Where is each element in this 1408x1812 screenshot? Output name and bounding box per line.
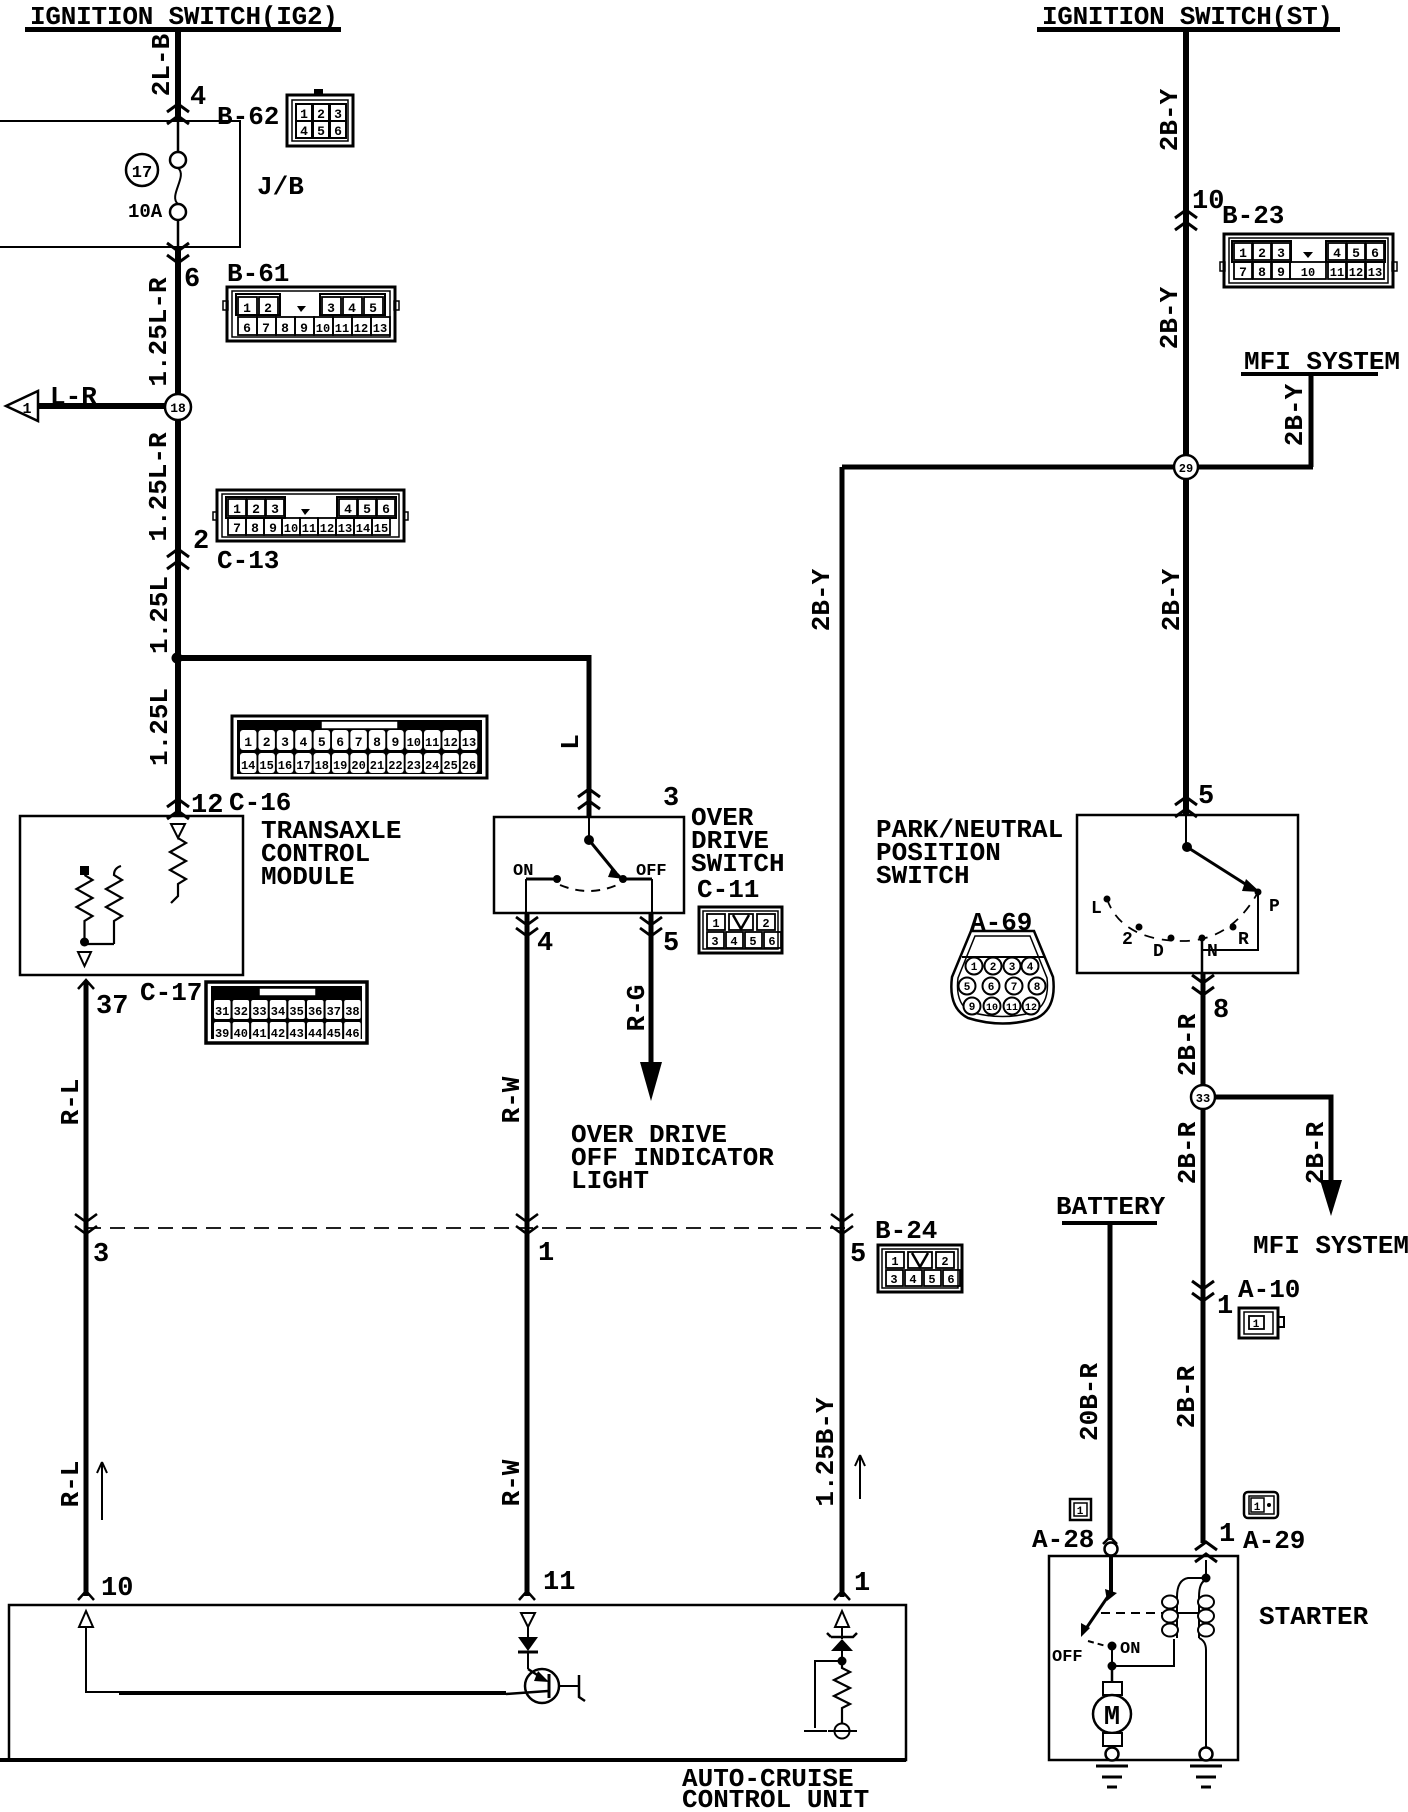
wire 20B-R from battery to starter A-28 (1075, 1225, 1117, 1544)
svg-text:1.25B-Y: 1.25B-Y (811, 1397, 841, 1507)
svg-text:C-16: C-16 (229, 788, 291, 818)
starter motor M (1093, 1666, 1131, 1751)
svg-text:10: 10 (407, 736, 421, 750)
svg-text:13: 13 (338, 522, 352, 536)
svg-text:11: 11 (543, 1568, 575, 1598)
svg-text:11: 11 (425, 736, 439, 750)
input arrow at auto-cruise pin 1 (835, 1611, 849, 1627)
connector B-61 icon (13 pins) (223, 287, 399, 341)
input arrow at auto-cruise pin 11 (521, 1613, 535, 1627)
svg-text:4: 4 (190, 83, 206, 113)
svg-text:2B-R: 2B-R (1172, 1365, 1202, 1428)
svg-text:2: 2 (1258, 246, 1266, 261)
svg-text:A-10: A-10 (1238, 1275, 1300, 1305)
svg-text:9: 9 (300, 321, 308, 336)
OVER DRIVE SWITCH box (494, 803, 785, 913)
svg-text:1: 1 (1239, 246, 1247, 261)
junction dot at branch to overdrive switch (172, 653, 183, 664)
pin 12 of connector C-16 with pass-through arrows (167, 791, 223, 821)
svg-text:38: 38 (345, 1005, 359, 1019)
triangle pointer 1 (L-R destination) (6, 391, 38, 421)
svg-text:1.25L: 1.25L (145, 576, 175, 654)
pin 1 of auto-cruise control unit (834, 1569, 870, 1600)
svg-text:10: 10 (101, 1574, 133, 1604)
svg-text:2: 2 (941, 1255, 948, 1269)
svg-text:2B-Y: 2B-Y (1280, 383, 1310, 446)
svg-text:3: 3 (271, 502, 279, 517)
svg-text:8: 8 (373, 735, 381, 750)
svg-text:5: 5 (964, 982, 971, 994)
svg-text:3: 3 (327, 301, 335, 316)
svg-text:21: 21 (370, 759, 384, 773)
over drive switch contacts and lever (513, 817, 667, 913)
ground symbol (right) (1190, 1766, 1222, 1787)
svg-text:45: 45 (327, 1027, 341, 1041)
svg-text:R-W: R-W (497, 1459, 527, 1506)
svg-text:C-17: C-17 (140, 978, 202, 1008)
pin 3 crossing at dashed boundary (75, 1214, 109, 1270)
svg-text:1: 1 (243, 301, 251, 316)
svg-text:26: 26 (462, 759, 476, 773)
wire 1.25L-R from J/B pin 6 to splice 18 (144, 247, 178, 396)
svg-text:4: 4 (300, 124, 308, 139)
svg-text:L: L (1091, 899, 1102, 919)
wire 2B-Y from MFI SYSTEM down to splice 29 (1280, 376, 1311, 467)
svg-text:12: 12 (320, 522, 334, 536)
svg-text:1: 1 (22, 401, 31, 418)
wire 1.25B-Y from boundary to auto-cruise pin 1 (811, 1228, 842, 1597)
svg-text:33: 33 (252, 1005, 266, 1019)
svg-text:2: 2 (264, 301, 272, 316)
junction dot and branch inside auto-cruise unit (804, 1657, 847, 1732)
arrow to over drive off indicator light (640, 1062, 662, 1101)
svg-text:7: 7 (1239, 265, 1247, 280)
svg-text:2: 2 (252, 502, 260, 517)
svg-text:11: 11 (1006, 1003, 1018, 1014)
svg-text:1.25L: 1.25L (145, 688, 175, 766)
connector C-13 icon (15 pins) (213, 490, 408, 541)
svg-text:5: 5 (1352, 246, 1360, 261)
svg-text:36: 36 (308, 1005, 322, 1019)
svg-text:B-62: B-62 (217, 102, 279, 132)
pin 1 crossing at dashed boundary (516, 1214, 554, 1269)
wire from splice 29 to middle 2B-Y branch (842, 465, 1313, 470)
pin 1 of connector A-29 with pass-through arrows (1195, 1520, 1235, 1562)
svg-text:4: 4 (909, 1273, 916, 1287)
svg-text:11: 11 (302, 522, 316, 536)
svg-text:25: 25 (443, 759, 457, 773)
contact circle at resistor bottom (828, 1724, 857, 1739)
svg-text:15: 15 (259, 759, 273, 773)
svg-text:3: 3 (1277, 246, 1285, 261)
svg-text:12: 12 (1349, 266, 1363, 280)
svg-text:37: 37 (96, 992, 128, 1022)
svg-text:12: 12 (354, 322, 368, 336)
wire 2B-Y (middle branch down to boundary) (807, 467, 842, 1228)
transistor Q1 inside auto-cruise unit (506, 1669, 585, 1703)
svg-text:9: 9 (269, 521, 277, 536)
svg-text:MODULE: MODULE (261, 862, 355, 892)
pin 4 of over drive switch (516, 917, 553, 959)
svg-text:8: 8 (1258, 265, 1266, 280)
svg-text:5: 5 (318, 735, 326, 750)
svg-text:8: 8 (1034, 982, 1041, 994)
svg-text:R-L: R-L (56, 1461, 86, 1508)
svg-text:14: 14 (356, 522, 370, 536)
pin 5 of over drive switch (640, 917, 679, 959)
pin 4 of connector B-62 with pass-through arrows (167, 83, 206, 124)
resistor inside auto-cruise unit (834, 1664, 850, 1723)
connector B-61 row 2 cells 6-13 (238, 317, 390, 336)
pin 1 of connector A-10 with pass-through arrows (1192, 1281, 1233, 1322)
svg-text:33: 33 (1196, 1092, 1210, 1106)
svg-text:7: 7 (1011, 982, 1018, 994)
svg-text:41: 41 (252, 1027, 266, 1041)
splice node 29 (1174, 455, 1198, 479)
AUTO-CRUISE CONTROL UNIT box (0, 1605, 906, 1812)
svg-text:32: 32 (234, 1005, 248, 1019)
svg-text:2B-R: 2B-R (1301, 1121, 1331, 1184)
svg-text:7: 7 (262, 321, 270, 336)
svg-text:9: 9 (969, 1002, 976, 1014)
svg-text:37: 37 (327, 1005, 341, 1019)
wire 2B-Y from IGNITION SWITCH(ST) to B-23 (1155, 31, 1186, 815)
TRANSAXLE CONTROL MODULE box (20, 816, 401, 975)
pin 6 of connector B-61 with pass-through arrows (167, 243, 200, 295)
svg-text:10: 10 (316, 322, 330, 336)
wire L-R to triangle pointer 1 (38, 382, 166, 412)
svg-text:46: 46 (345, 1027, 359, 1041)
svg-text:OFF: OFF (1052, 1648, 1083, 1667)
svg-text:13: 13 (373, 322, 387, 336)
svg-text:2B-Y: 2B-Y (807, 568, 837, 631)
connector A-28 icon (1070, 1499, 1091, 1520)
svg-text:44: 44 (308, 1027, 322, 1041)
svg-text:3: 3 (663, 784, 679, 814)
svg-text:3: 3 (334, 107, 342, 122)
wire R-G from over drive switch pin 5 (622, 913, 652, 1064)
svg-text:P: P (1269, 897, 1280, 917)
svg-text:12: 12 (443, 736, 457, 750)
svg-text:5: 5 (850, 1240, 866, 1270)
wire 2B-R from park/neutral switch to splice 33 (1173, 973, 1203, 1543)
svg-text:6: 6 (336, 735, 344, 750)
svg-text:8: 8 (251, 521, 259, 536)
svg-text:6: 6 (382, 502, 390, 517)
resistor (right, inside TCM) with triangle terminal (170, 824, 186, 903)
svg-text:2B-Y: 2B-Y (1157, 568, 1187, 631)
svg-text:5: 5 (663, 929, 679, 959)
svg-text:R-L: R-L (56, 1079, 86, 1126)
fuse 17 10A inside J/B (126, 121, 186, 247)
svg-text:2: 2 (1122, 930, 1133, 950)
svg-text:ON: ON (1120, 1640, 1140, 1659)
svg-text:A-28: A-28 (1032, 1525, 1094, 1555)
svg-text:2: 2 (762, 917, 769, 931)
svg-text:39: 39 (215, 1027, 229, 1041)
svg-text:1.25L-R: 1.25L-R (144, 277, 174, 387)
svg-text:9: 9 (391, 735, 399, 750)
pin 3 of over drive switch connector C-11 (578, 784, 679, 814)
svg-text:13: 13 (1368, 266, 1382, 280)
ground terminal circles on starter (1106, 1748, 1119, 1761)
svg-text:2B-Y: 2B-Y (1155, 286, 1185, 349)
node BATTERY title (1056, 1192, 1166, 1225)
svg-text:B-23: B-23 (1222, 201, 1284, 231)
svg-text:4: 4 (1333, 246, 1341, 261)
svg-text:16: 16 (278, 759, 292, 773)
svg-text:19: 19 (333, 759, 347, 773)
svg-text:24: 24 (425, 759, 439, 773)
connector C-17 icon (pins 31-46, dark body) (206, 982, 367, 1043)
PARK/NEUTRAL POSITION SWITCH box (876, 815, 1298, 973)
node IGNITION SWITCH (ST) title (1037, 2, 1340, 32)
splice node 33 (1191, 1085, 1215, 1109)
svg-text:23: 23 (407, 759, 421, 773)
svg-text:1: 1 (712, 917, 719, 931)
svg-text:6: 6 (243, 321, 251, 336)
svg-text:C-11: C-11 (697, 875, 759, 905)
svg-text:14: 14 (241, 759, 255, 773)
svg-text:A-29: A-29 (1243, 1526, 1305, 1556)
starter solenoid coils (1162, 1560, 1214, 1751)
svg-text:9: 9 (1277, 265, 1285, 280)
svg-text:2: 2 (990, 962, 997, 974)
svg-text:6: 6 (334, 124, 342, 139)
svg-text:1: 1 (244, 735, 252, 750)
svg-text:15: 15 (374, 522, 388, 536)
svg-text:R: R (1238, 930, 1249, 950)
svg-text:3: 3 (1009, 962, 1016, 974)
STARTER box (1049, 1556, 1369, 1760)
svg-text:40: 40 (234, 1027, 248, 1041)
connector A-29 icon (1244, 1492, 1278, 1518)
svg-text:4: 4 (299, 735, 307, 750)
svg-text:SWITCH: SWITCH (876, 861, 970, 891)
svg-text:18: 18 (315, 759, 329, 773)
svg-text:MFI SYSTEM: MFI SYSTEM (1253, 1231, 1408, 1261)
ground symbol (left) (1096, 1766, 1128, 1787)
svg-text:22: 22 (388, 759, 402, 773)
svg-text:42: 42 (271, 1027, 285, 1041)
svg-text:20: 20 (351, 759, 365, 773)
connector A-10 icon (1239, 1308, 1284, 1338)
pin 10 of connector B-23 with pass-through arrows (1175, 187, 1224, 230)
svg-text:2: 2 (193, 527, 209, 557)
svg-text:11: 11 (335, 322, 349, 336)
svg-text:5: 5 (749, 935, 756, 949)
pin 11 of auto-cruise control unit (519, 1568, 575, 1600)
svg-text:7: 7 (233, 521, 241, 536)
svg-text:4: 4 (344, 502, 352, 517)
svg-text:10: 10 (986, 1003, 998, 1014)
svg-text:3: 3 (711, 935, 718, 949)
A-28 terminal circle on starter (1105, 1543, 1118, 1556)
svg-text:4: 4 (1027, 962, 1034, 974)
svg-text:N: N (1207, 942, 1218, 962)
svg-text:10: 10 (1301, 266, 1315, 280)
pin 37 of connector C-17 (78, 980, 128, 1022)
connector B-24 icon (6 pins with keyway) (878, 1245, 962, 1292)
connector B-23 icon (13 pins) (1220, 234, 1397, 287)
wire 2L-B from IGNITION SWITCH(IG2) to J/B (147, 31, 178, 121)
node IGNITION SWITCH (IG2) title (25, 2, 341, 32)
dashed harness boundary line (86, 1227, 845, 1229)
svg-text:8: 8 (281, 321, 289, 336)
svg-text:C-13: C-13 (217, 546, 279, 576)
svg-text:4: 4 (730, 935, 737, 949)
splice node 18 (165, 394, 191, 420)
node MFI SYSTEM title (top right) (1241, 347, 1400, 377)
resistor network (left, inside TCM) (77, 866, 123, 966)
svg-text:3: 3 (93, 1240, 109, 1270)
svg-text:17: 17 (132, 164, 152, 183)
wire R-L from boundary to auto-cruise pin 10 (56, 1228, 86, 1596)
svg-text:6: 6 (768, 935, 775, 949)
svg-text:1.25L-R: 1.25L-R (144, 432, 174, 542)
svg-text:3: 3 (890, 1273, 897, 1287)
diode at auto-cruise pin 11 (518, 1627, 538, 1669)
svg-text:20B-R: 20B-R (1075, 1363, 1105, 1441)
svg-text:4: 4 (537, 929, 553, 959)
wire R-W from over drive switch pin 4 to boundary (497, 913, 527, 1228)
svg-text:1: 1 (1253, 1319, 1260, 1331)
current direction arrow (1.25B-Y wire) (855, 1455, 865, 1499)
svg-text:R-W: R-W (497, 1076, 527, 1123)
svg-text:1: 1 (1219, 1520, 1235, 1550)
wire R-L from TCM pin 37 to dashed boundary (56, 982, 86, 1228)
svg-text:8: 8 (1213, 996, 1229, 1026)
pin 5 of park/neutral position switch (1175, 782, 1214, 817)
svg-text:1: 1 (971, 962, 978, 974)
svg-text:B-24: B-24 (875, 1216, 937, 1246)
svg-text:M: M (1104, 1703, 1120, 1733)
svg-text:6: 6 (184, 265, 200, 295)
starter switch lever OFF/ON (1052, 1556, 1174, 1671)
zener diode at auto-cruise pin 1 (827, 1627, 857, 1661)
svg-text:2L-B: 2L-B (147, 33, 177, 96)
svg-text:5: 5 (369, 301, 377, 316)
svg-text:18: 18 (170, 401, 186, 416)
connector B-62 icon (2x3 pins 1-6) (287, 89, 353, 146)
svg-text:1: 1 (891, 1255, 898, 1269)
svg-text:1: 1 (1254, 1502, 1261, 1514)
svg-text:6: 6 (1371, 246, 1379, 261)
svg-text:3: 3 (281, 735, 289, 750)
svg-text:5: 5 (928, 1273, 935, 1287)
svg-text:CONTROL UNIT: CONTROL UNIT (682, 1785, 869, 1812)
svg-text:1: 1 (538, 1239, 554, 1269)
svg-text:A-69: A-69 (970, 908, 1032, 938)
svg-text:5: 5 (317, 124, 325, 139)
input arrow at auto-cruise pin 10 (79, 1611, 506, 1693)
svg-text:1: 1 (1217, 1292, 1233, 1322)
node OVER DRIVE OFF INDICATOR LIGHT (571, 1120, 774, 1196)
park/neutral switch rotor and contacts (1091, 815, 1280, 973)
connector C-11 icon (6 pins with keyway) (699, 907, 782, 953)
wire R-W from boundary to auto-cruise pin 11 (497, 1228, 527, 1596)
pin 8 of park/neutral position switch (1192, 975, 1229, 1026)
svg-text:5: 5 (363, 502, 371, 517)
svg-text:12: 12 (1025, 1003, 1037, 1014)
wire 2B-R branch from splice 33 to MFI SYSTEM arrow (1203, 1097, 1342, 1216)
svg-text:R-G: R-G (622, 985, 652, 1032)
svg-text:6: 6 (988, 982, 995, 994)
svg-text:35: 35 (289, 1005, 303, 1019)
svg-text:2B-R: 2B-R (1173, 1013, 1203, 1076)
svg-text:J/B: J/B (257, 172, 304, 202)
svg-text:1: 1 (300, 107, 308, 122)
svg-text:2B-Y: 2B-Y (1155, 88, 1185, 151)
svg-text:1: 1 (1077, 1506, 1084, 1518)
svg-text:34: 34 (271, 1005, 285, 1019)
svg-text:10A: 10A (128, 201, 163, 223)
svg-text:2: 2 (317, 107, 325, 122)
svg-text:29: 29 (1179, 462, 1193, 476)
svg-text:10: 10 (1192, 187, 1224, 217)
svg-text:6: 6 (947, 1273, 954, 1287)
svg-text:4: 4 (348, 301, 356, 316)
pin 5 crossing at dashed boundary (B-24) (831, 1214, 866, 1270)
svg-text:13: 13 (462, 736, 476, 750)
svg-text:10: 10 (284, 522, 298, 536)
connector C-16 icon (26 pins, dark body) (232, 716, 487, 778)
svg-text:17: 17 (296, 759, 310, 773)
svg-text:1: 1 (854, 1569, 870, 1599)
svg-text:1: 1 (233, 502, 241, 517)
junction block J/B box (0, 121, 240, 247)
svg-text:43: 43 (289, 1027, 303, 1041)
svg-text:D: D (1153, 942, 1164, 962)
svg-text:LIGHT: LIGHT (571, 1166, 649, 1196)
svg-text:L: L (556, 734, 586, 750)
svg-text:31: 31 (215, 1005, 229, 1019)
svg-text:2: 2 (263, 735, 271, 750)
svg-text:B-61: B-61 (227, 259, 289, 289)
pin 10 of auto-cruise control unit (78, 1574, 133, 1604)
connector A-69 icon (12 round pins) (951, 931, 1053, 1024)
svg-text:7: 7 (355, 735, 363, 750)
svg-text:5: 5 (1198, 782, 1214, 812)
pin 2 of connector C-13 with pass-through arrows (167, 527, 209, 569)
current direction arrow (R-L wire) (97, 1462, 107, 1520)
svg-text:BATTERY: BATTERY (1056, 1192, 1166, 1222)
svg-text:11: 11 (1330, 266, 1344, 280)
wire 1.25L-R from splice 18 to connector C-13 (144, 420, 178, 816)
svg-text:2B-R: 2B-R (1173, 1121, 1203, 1184)
wire branch L to over drive switch (177, 655, 589, 817)
svg-text:STARTER: STARTER (1259, 1602, 1369, 1632)
